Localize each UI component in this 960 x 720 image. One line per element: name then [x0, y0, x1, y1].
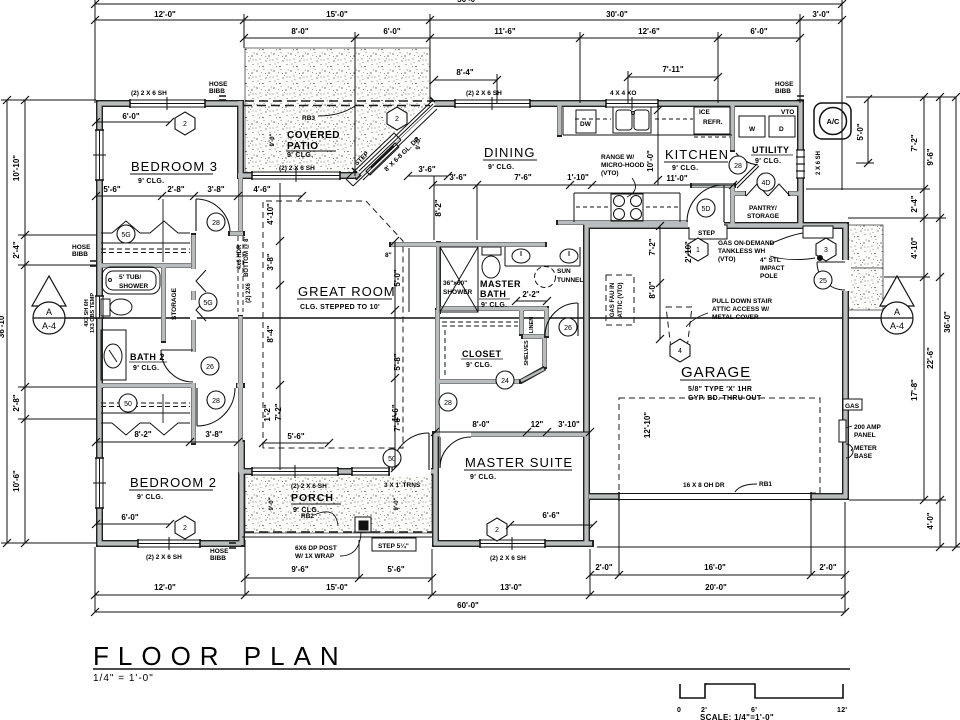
svg-text:KITCHEN: KITCHEN — [665, 147, 729, 162]
svg-text:TANKLESS WH: TANKLESS WH — [718, 248, 765, 255]
svg-text:STEP: STEP — [698, 230, 716, 237]
svg-text:3'-0": 3'-0" — [812, 10, 829, 19]
svg-text:BIBB: BIBB — [72, 251, 88, 258]
svg-text:25: 25 — [819, 278, 827, 285]
svg-text:ATTIC ACCESS W/: ATTIC ACCESS W/ — [712, 306, 769, 313]
svg-text:DINING: DINING — [484, 145, 536, 160]
svg-text:GAS: GAS — [845, 403, 860, 410]
svg-text:2'-8": 2'-8" — [12, 394, 21, 411]
svg-text:STORAGE: STORAGE — [747, 213, 780, 220]
svg-text:STORAGE: STORAGE — [171, 287, 178, 320]
svg-text:6'-0": 6'-0" — [122, 112, 139, 121]
svg-text:4 X 4 XO: 4 X 4 XO — [610, 90, 636, 97]
svg-text:10'-6": 10'-6" — [12, 470, 21, 492]
svg-text:8": 8" — [385, 252, 392, 259]
svg-text:CLG. STEPPED TO 10': CLG. STEPPED TO 10' — [300, 304, 380, 311]
svg-text:2'-0": 2'-0" — [595, 563, 612, 572]
svg-text:9' CLG.: 9' CLG. — [470, 474, 496, 481]
svg-text:4: 4 — [678, 348, 682, 355]
svg-text:BOTTOM @ 8': BOTTOM @ 8' — [244, 237, 250, 277]
svg-text:D: D — [779, 126, 784, 133]
svg-text:56'-0": 56'-0" — [457, 0, 479, 4]
svg-text:RANGE W/: RANGE W/ — [601, 154, 634, 161]
svg-text:5D: 5D — [702, 206, 711, 213]
svg-text:26: 26 — [206, 364, 214, 371]
svg-text:BATH: BATH — [480, 289, 506, 299]
svg-text:0: 0 — [677, 707, 681, 714]
svg-text:4'-0": 4'-0" — [926, 512, 935, 529]
svg-text:RB3: RB3 — [302, 115, 315, 122]
svg-text:METER: METER — [854, 445, 877, 452]
svg-text:6'-0": 6'-0" — [383, 27, 400, 36]
svg-text:RB1: RB1 — [759, 481, 772, 488]
svg-text:IMPACT: IMPACT — [760, 265, 784, 272]
svg-text:RB2: RB2 — [301, 513, 314, 520]
svg-text:2: 2 — [183, 121, 187, 128]
svg-text:FLOOR PLAN: FLOOR PLAN — [93, 641, 348, 671]
svg-text:SCALE: 1/4"=1'-0": SCALE: 1/4"=1'-0" — [700, 713, 774, 720]
svg-text:A: A — [894, 307, 900, 317]
svg-text:9'-6": 9'-6" — [926, 148, 935, 165]
svg-text:W/ 1X WRAP: W/ 1X WRAP — [295, 553, 335, 560]
svg-text:1: 1 — [696, 247, 700, 254]
svg-text:3'-6": 3'-6" — [418, 165, 435, 174]
svg-text:9'-0": 9'-0" — [416, 136, 422, 149]
svg-text:15'-0": 15'-0" — [326, 583, 348, 592]
svg-text:SHOWER: SHOWER — [443, 289, 473, 296]
svg-text:12": 12" — [531, 420, 544, 429]
svg-text:12'-0": 12'-0" — [154, 583, 176, 592]
svg-text:24: 24 — [501, 378, 509, 385]
svg-text:(2) 2 X 6 SH: (2) 2 X 6 SH — [490, 555, 526, 562]
svg-text:SHELVES: SHELVES — [524, 340, 530, 366]
svg-text:6'-0": 6'-0" — [121, 513, 138, 522]
svg-text:9'-0": 9'-0" — [394, 497, 400, 510]
svg-text:GREAT ROOM: GREAT ROOM — [298, 284, 396, 299]
svg-text:BIBB: BIBB — [209, 88, 225, 95]
svg-text:12'-0": 12'-0" — [154, 10, 176, 19]
svg-text:11'-0": 11'-0" — [666, 174, 687, 183]
svg-text:CLOSET: CLOSET — [462, 349, 502, 359]
svg-text:9' CLG.: 9' CLG. — [755, 158, 781, 165]
svg-text:4D: 4D — [762, 180, 771, 187]
svg-text:A-4: A-4 — [42, 321, 56, 331]
svg-text:30'-0": 30'-0" — [606, 10, 628, 19]
svg-text:3'-8": 3'-8" — [205, 430, 222, 439]
svg-text:4'-10": 4'-10" — [910, 237, 919, 259]
svg-text:3: 3 — [824, 247, 828, 254]
svg-text:HOSE: HOSE — [210, 548, 229, 555]
svg-text:(2) 2X6: (2) 2X6 — [246, 283, 252, 303]
svg-text:8'-2": 8'-2" — [434, 199, 443, 216]
svg-text:PORCH: PORCH — [291, 492, 334, 504]
svg-text:7'-2": 7'-2" — [648, 238, 657, 255]
svg-text:2'-8": 2'-8" — [167, 185, 184, 194]
svg-text:3 X 1' TRNS: 3 X 1' TRNS — [384, 482, 421, 489]
svg-text:(2) 2 X 6 SH: (2) 2 X 6 SH — [131, 90, 167, 97]
svg-text:12'-6": 12'-6" — [638, 27, 660, 36]
svg-text:8'-2": 8'-2" — [134, 430, 151, 439]
svg-text:17'-8": 17'-8" — [910, 379, 919, 401]
svg-text:10'-10": 10'-10" — [12, 155, 21, 181]
svg-text:1'-2": 1'-2" — [263, 404, 272, 421]
svg-text:(VTO): (VTO) — [601, 170, 619, 177]
svg-text:3'-6": 3'-6" — [449, 173, 466, 182]
svg-text:9' CLG.: 9' CLG. — [488, 164, 514, 171]
svg-text:5'-6": 5'-6" — [387, 565, 404, 574]
svg-text:200 AMP: 200 AMP — [854, 424, 882, 431]
svg-text:8'-4": 8'-4" — [266, 325, 275, 342]
svg-text:36"x60": 36"x60" — [443, 280, 467, 287]
svg-text:MICRO-HOOD: MICRO-HOOD — [601, 162, 645, 169]
svg-text:GAS ON-DEMAND: GAS ON-DEMAND — [718, 240, 775, 247]
svg-text:28: 28 — [734, 163, 742, 170]
svg-text:SUN: SUN — [557, 268, 571, 275]
svg-text:7'-11": 7'-11" — [662, 65, 683, 74]
svg-text:STEP 5¼": STEP 5¼" — [378, 542, 409, 550]
svg-text:BEDROOM 3: BEDROOM 3 — [131, 159, 218, 174]
svg-text:8'-0": 8'-0" — [472, 420, 489, 429]
svg-text:2'-2": 2'-2" — [522, 290, 539, 299]
svg-text:1/4" = 1'-0": 1/4" = 1'-0" — [93, 673, 154, 684]
svg-text:BEDROOM 2: BEDROOM 2 — [130, 475, 217, 490]
svg-text:MASTER SUITE: MASTER SUITE — [465, 455, 573, 470]
svg-text:BASE: BASE — [854, 453, 873, 460]
svg-text:13'-0": 13'-0" — [500, 583, 522, 592]
svg-text:4'-10": 4'-10" — [266, 203, 275, 225]
svg-text:7'-6": 7'-6" — [514, 173, 531, 182]
svg-text:8'-0": 8'-0" — [648, 281, 657, 298]
svg-text:(2) 2 X 6 SH: (2) 2 X 6 SH — [291, 483, 327, 490]
svg-text:2'-0": 2'-0" — [819, 563, 836, 572]
svg-text:9' CLG.: 9' CLG. — [466, 362, 492, 369]
svg-text:ATTIC (VTO): ATTIC (VTO) — [618, 282, 624, 317]
svg-text:28: 28 — [212, 398, 220, 405]
svg-text:9' CLG.: 9' CLG. — [137, 494, 163, 501]
svg-text:2: 2 — [495, 527, 499, 534]
svg-text:HOSE: HOSE — [775, 81, 794, 88]
svg-text:2'-4": 2'-4" — [910, 195, 919, 212]
svg-text:DW: DW — [580, 121, 592, 128]
svg-text:GARAGE: GARAGE — [681, 364, 751, 381]
svg-text:3'-8": 3'-8" — [207, 185, 224, 194]
svg-text:9' CLG.: 9' CLG. — [138, 178, 164, 185]
svg-text:5'-0": 5'-0" — [393, 269, 402, 286]
svg-text:28: 28 — [444, 400, 452, 407]
svg-text:1X3 OBS TEMP: 1X3 OBS TEMP — [90, 293, 96, 333]
svg-text:BIBB: BIBB — [210, 555, 226, 562]
svg-text:TUNNEL: TUNNEL — [557, 277, 583, 284]
svg-text:20'-0": 20'-0" — [705, 583, 727, 592]
svg-text:BIBB: BIBB — [775, 88, 791, 95]
svg-text:2'-4": 2'-4" — [12, 241, 21, 258]
svg-text:1'-10": 1'-10" — [567, 173, 589, 182]
svg-text:PANEL: PANEL — [854, 432, 876, 439]
svg-text:POLE: POLE — [760, 273, 778, 280]
svg-text:10'-0": 10'-0" — [646, 150, 655, 172]
svg-text:9'-0": 9'-0" — [270, 133, 276, 146]
svg-text:36'-10": 36'-10" — [0, 312, 6, 338]
svg-text:MASTER: MASTER — [480, 279, 521, 289]
svg-text:COVERED: COVERED — [287, 130, 340, 141]
svg-text:HOSE: HOSE — [209, 81, 228, 88]
svg-text:HOSE: HOSE — [72, 244, 91, 251]
svg-text:6'-0": 6'-0" — [750, 27, 767, 36]
svg-text:2 X 6 SH: 2 X 6 SH — [816, 151, 822, 175]
svg-text:METAL COVER: METAL COVER — [712, 314, 759, 321]
svg-text:9' CLG.: 9' CLG. — [133, 365, 159, 372]
svg-text:9' CLG.: 9' CLG. — [672, 165, 698, 172]
svg-text:3'-8": 3'-8" — [266, 253, 275, 270]
svg-text:2'-10": 2'-10" — [684, 241, 693, 263]
svg-text:50: 50 — [124, 401, 132, 408]
svg-text:(VTO): (VTO) — [718, 256, 736, 263]
svg-text:5'-8": 5'-8" — [393, 353, 402, 370]
svg-text:5/8" TYPE 'X' 1HR: 5/8" TYPE 'X' 1HR — [688, 386, 752, 393]
svg-text:26: 26 — [564, 325, 572, 332]
svg-text:5'-0": 5'-0" — [856, 123, 865, 140]
svg-text:9'-0": 9'-0" — [269, 497, 275, 510]
svg-text:8'-4": 8'-4" — [456, 68, 473, 77]
svg-text:9' CLG.: 9' CLG. — [481, 302, 507, 309]
svg-text:4x6 HDR: 4x6 HDR — [237, 244, 243, 269]
svg-text:7'-2": 7'-2" — [910, 134, 919, 151]
svg-text:11'-6": 11'-6" — [494, 27, 515, 36]
svg-text:GYP. BD. THRU-OUT: GYP. BD. THRU-OUT — [688, 395, 762, 402]
svg-text:5G: 5G — [121, 232, 130, 239]
svg-text:3'-10": 3'-10" — [558, 420, 580, 429]
svg-text:A/C: A/C — [827, 117, 841, 126]
svg-text:2: 2 — [395, 116, 399, 123]
svg-text:7'-2": 7'-2" — [274, 403, 283, 420]
svg-text:SHOWER: SHOWER — [119, 283, 149, 290]
svg-text:REFR.: REFR. — [703, 119, 723, 126]
svg-text:2: 2 — [183, 525, 187, 532]
svg-text:5' TUB/: 5' TUB/ — [119, 274, 141, 281]
svg-text:ICE: ICE — [699, 109, 711, 116]
svg-text:16'-0": 16'-0" — [704, 563, 726, 572]
svg-text:16 X 8 OH DR: 16 X 8 OH DR — [683, 482, 725, 489]
svg-text:A-4: A-4 — [890, 321, 904, 331]
svg-text:8'-0": 8'-0" — [291, 27, 308, 36]
svg-text:60'-0": 60'-0" — [457, 601, 479, 610]
svg-text:5G: 5G — [203, 300, 212, 307]
svg-text:36'-0": 36'-0" — [943, 311, 952, 333]
svg-text:VTO: VTO — [781, 109, 794, 116]
svg-text:PULL DOWN STAIR: PULL DOWN STAIR — [712, 298, 772, 305]
svg-text:(2) 2 X 6 SH: (2) 2 X 6 SH — [146, 554, 182, 561]
svg-text:28: 28 — [212, 220, 220, 227]
svg-text:5'-6": 5'-6" — [287, 432, 304, 441]
svg-text:6X6 DP POST: 6X6 DP POST — [295, 545, 337, 552]
svg-text:LINEN: LINEN — [529, 317, 535, 334]
svg-text:(2) 2 X 6 SH: (2) 2 X 6 SH — [279, 165, 315, 172]
svg-text:GAS FAU IN: GAS FAU IN — [610, 283, 616, 317]
svg-text:PANTRY/: PANTRY/ — [749, 205, 777, 212]
svg-text:W: W — [749, 126, 756, 133]
svg-text:15'-0": 15'-0" — [326, 10, 348, 19]
svg-text:5'-6": 5'-6" — [103, 185, 120, 194]
svg-text:12': 12' — [837, 707, 847, 714]
svg-text:PATIO: PATIO — [287, 141, 319, 152]
svg-text:UTILITY: UTILITY — [752, 145, 790, 155]
svg-text:9'-6": 9'-6" — [291, 565, 308, 574]
svg-text:22'-6": 22'-6" — [926, 347, 935, 369]
svg-text:12'-10": 12'-10" — [643, 412, 652, 438]
svg-text:A: A — [46, 307, 52, 317]
svg-text:1'-6": 1'-6" — [391, 404, 400, 421]
svg-text:6'-6": 6'-6" — [542, 511, 559, 520]
svg-text:4'-6": 4'-6" — [253, 185, 270, 194]
svg-text:9' CLG.: 9' CLG. — [287, 152, 313, 159]
svg-text:BATH 2: BATH 2 — [130, 352, 165, 362]
